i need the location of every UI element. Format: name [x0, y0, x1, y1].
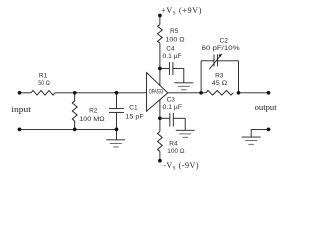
svg-text:50 Ω: 50 Ω — [38, 80, 50, 87]
resistor R3 — [206, 91, 233, 96]
wire bottom rail — [20, 128, 117, 130]
wire node B to op-amp input — [117, 92, 147, 94]
capacitor C1 — [109, 93, 124, 130]
wire node A to node B — [75, 92, 117, 94]
svg-text:+VS (+9V): +VS (+9V) — [161, 6, 202, 17]
bottom rail junction dot under R2 — [73, 128, 77, 132]
wire C2 branch left edge — [200, 61, 202, 93]
node output return terminal dot — [267, 128, 271, 132]
node output terminal dot — [267, 91, 271, 95]
wire node E to R3 — [201, 92, 206, 94]
svg-text:60 pF/10%: 60 pF/10% — [202, 45, 240, 52]
resistor R2 — [72, 93, 77, 130]
svg-text:C3: C3 — [167, 97, 176, 104]
svg-text:input: input — [11, 105, 31, 114]
svg-text:R3: R3 — [215, 73, 224, 80]
wire R4 to -Vs — [159, 152, 161, 161]
capacitor C4 — [160, 62, 184, 75]
node F junction dot — [237, 91, 241, 95]
wire op-amp V- pin to node D — [159, 100, 161, 119]
node input terminal dot (return) — [18, 128, 22, 132]
capacitor C3 — [160, 113, 185, 127]
wire R5 to node C — [159, 43, 161, 69]
svg-text:R5: R5 — [170, 28, 179, 35]
svg-text:OPA633: OPA633 — [149, 88, 163, 95]
resistor R1 — [31, 91, 55, 96]
resistor R4 — [158, 132, 163, 152]
capacitor C2 (variable) — [209, 54, 222, 70]
svg-text:C4: C4 — [166, 45, 175, 52]
wire node C to op-amp V+ pin — [159, 69, 161, 87]
ground (bottom rail) — [106, 129, 125, 147]
wire +Vs to R5 — [159, 16, 161, 25]
svg-text:output: output — [255, 103, 278, 112]
resistor R5 — [158, 25, 163, 44]
svg-text:R1: R1 — [39, 72, 48, 79]
svg-text:0.1 µF: 0.1 µF — [163, 53, 182, 60]
node C junction dot — [158, 67, 162, 71]
svg-text:100 Ω: 100 Ω — [167, 148, 184, 155]
node E junction dot — [199, 91, 203, 95]
node B junction dot — [115, 91, 119, 95]
node input terminal dot (signal) — [18, 91, 22, 95]
wire C2 branch right edge — [238, 61, 240, 93]
wire C2 branch top left — [201, 60, 214, 62]
bottom rail junction dot under C1 — [115, 128, 119, 132]
svg-text:100 Ω: 100 Ω — [165, 37, 184, 44]
svg-text:0.1 µF: 0.1 µF — [163, 104, 182, 111]
wire node D to R4 — [159, 118, 161, 131]
svg-text:C1: C1 — [129, 105, 138, 112]
op-amp U1 OPA633 buffer — [147, 73, 168, 112]
svg-text:100 MΩ: 100 MΩ — [79, 116, 104, 123]
ground (C4) — [174, 69, 193, 90]
wire output return — [251, 128, 268, 130]
wire input to R1 — [20, 92, 32, 94]
wire R1 to node A — [55, 92, 75, 94]
-Vs supply terminal dot — [158, 159, 162, 163]
wire node F to output — [239, 92, 269, 94]
ground (output return) — [242, 129, 261, 144]
svg-text:R2: R2 — [89, 107, 98, 114]
node A junction dot — [73, 91, 77, 95]
svg-text:45 Ω: 45 Ω — [212, 80, 227, 87]
ground (C3) — [176, 118, 195, 137]
svg-text:-VS (-9V): -VS (-9V) — [163, 161, 199, 172]
svg-text:R4: R4 — [169, 140, 178, 147]
svg-text:C2: C2 — [220, 38, 229, 45]
node D junction dot — [158, 116, 162, 120]
+Vs supply terminal dot — [158, 14, 162, 18]
svg-text:15 pF: 15 pF — [125, 113, 143, 120]
wire C2 branch top right — [217, 60, 238, 62]
wire op-amp output to node E — [168, 92, 201, 94]
